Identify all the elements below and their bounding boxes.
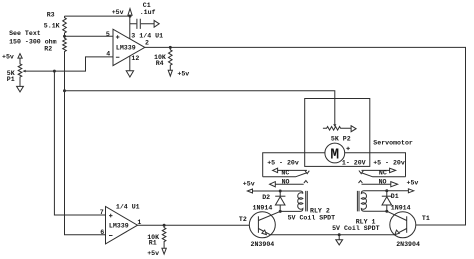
resistor R4 (154, 47, 172, 70)
svg-text:C1: C1 (143, 2, 151, 9)
svg-text:T1: T1 (422, 215, 430, 222)
svg-text:R3: R3 (47, 12, 55, 19)
svg-text:R1: R1 (149, 240, 157, 247)
wire U1a output (145, 47, 466, 225)
wire down to pin 7 (54, 71, 105, 215)
relay coil RLY2 (280, 191, 335, 222)
resistor R3 (44, 12, 67, 37)
wire pin3 vertical (129, 16, 131, 40)
svg-text:2N3904: 2N3904 (396, 241, 420, 248)
pivot mark RLY2 (305, 171, 309, 174)
NC contact RLY2 (273, 168, 307, 176)
svg-text:R2: R2 (44, 45, 52, 52)
potentiometer P1 (2, 54, 26, 87)
+5v arrow left contacts (247, 189, 252, 193)
op-amp U1a (113, 29, 145, 65)
node D1 top dot (385, 189, 388, 192)
svg-text:See Text: See Text (9, 30, 41, 37)
svg-text:+5v: +5v (177, 70, 189, 77)
diode D2 (253, 191, 286, 212)
svg-text:D2: D2 (262, 194, 270, 201)
svg-text:1/4 U1: 1/4 U1 (116, 204, 140, 211)
+5v arrow below R4 (168, 70, 172, 76)
node R1 junction dot (163, 224, 166, 227)
svg-text:+5v: +5v (243, 180, 255, 187)
svg-text:D1: D1 (391, 193, 399, 200)
svg-text:NO: NO (379, 178, 387, 185)
transistor T2 (239, 211, 280, 248)
svg-text:+5 - 20v: +5 - 20v (373, 160, 405, 167)
wire motor right to contact arm (345, 153, 406, 177)
NO contact RLY2 (270, 178, 308, 186)
svg-text:7: 7 (100, 209, 104, 216)
node D2 top dot (279, 190, 282, 193)
svg-text:2: 2 (145, 40, 149, 47)
svg-text:NO: NO (282, 178, 290, 185)
svg-text:5: 5 (106, 31, 110, 38)
contact arm RLY1 (362, 173, 406, 177)
+5v arrow below R1 (162, 248, 166, 254)
wire U1b output to T2 base (138, 224, 259, 226)
node +5v junction dot (129, 15, 132, 18)
resistor R1 (147, 225, 166, 248)
svg-text:Servomotor: Servomotor (373, 140, 413, 147)
svg-text:.1uf: .1uf (140, 9, 156, 16)
svg-text:+5v: +5v (112, 9, 124, 16)
resistor R2 (44, 36, 66, 91)
node R3/R2 junction dot (63, 35, 66, 38)
svg-text:1- 20V: 1- 20V (342, 160, 366, 167)
svg-text:+5 - 20v: +5 - 20v (267, 160, 299, 167)
svg-text:P1: P1 (7, 76, 15, 83)
wire +5v to relay coil RLY1 (387, 190, 409, 192)
wire pin 12 to ground (129, 56, 131, 71)
NO contact RLY1 (359, 178, 398, 186)
node ground dot (338, 233, 341, 236)
wire pin 4 to pot wiper (26, 57, 113, 71)
ground U1a (126, 71, 133, 77)
svg-text:2N3904: 2N3904 (251, 241, 275, 248)
transistor T1 (387, 211, 430, 248)
svg-text:6: 6 (100, 229, 104, 236)
op-amp U1b (106, 207, 138, 244)
wire long horizontal to servo pot (65, 91, 335, 125)
svg-text:3: 3 (131, 32, 135, 39)
node D2 bottom dot (279, 210, 282, 213)
svg-text:NC: NC (281, 170, 289, 177)
svg-text:NC: NC (379, 170, 387, 177)
svg-text:5V Coil SPDT: 5V Coil SPDT (332, 225, 380, 232)
svg-text:LM339: LM339 (116, 45, 136, 52)
svg-text:12: 12 (131, 55, 139, 62)
diode D1 (382, 191, 411, 212)
svg-text:LM339: LM339 (109, 223, 129, 230)
node R4 junction dot (169, 46, 172, 49)
node R2 long-wire junction dot (63, 89, 66, 92)
wire bottom emitters (270, 234, 394, 236)
wire to pin 5 (65, 35, 114, 37)
wire ground stem (338, 235, 340, 240)
svg-text:1/4 U1: 1/4 U1 (139, 32, 163, 39)
contact arm RLY2 (263, 173, 307, 177)
relay coil RLY1 (332, 191, 387, 232)
node D1 bottom dot (385, 210, 388, 213)
svg-text:5K P2: 5K P2 (331, 135, 351, 142)
wire R3 top to +5v node (65, 15, 131, 17)
wire R2 vertical down to pin 6 (65, 91, 106, 235)
svg-text:1N914: 1N914 (253, 205, 273, 212)
wire motor left to contact arm (263, 153, 325, 177)
capacitor C1 (130, 2, 159, 29)
ground P1 (17, 86, 24, 92)
potentiometer P2 (323, 124, 356, 142)
svg-text:5V Coil SPDT: 5V Coil SPDT (288, 214, 336, 221)
ground bottom (336, 240, 343, 245)
svg-text:+5v: +5v (147, 250, 159, 257)
NC contact RLY1 (362, 168, 396, 176)
svg-text:M: M (330, 147, 339, 163)
svg-text:+5v: +5v (407, 179, 419, 186)
+5v arrow right contacts (408, 189, 413, 193)
wire +5v to relay coil RLY2 (253, 191, 303, 194)
pivot mark RLY1 (359, 171, 363, 174)
svg-text:+5v: +5v (2, 54, 14, 61)
node wiper junction dot (53, 70, 56, 73)
svg-text:4: 4 (106, 51, 110, 58)
svg-text:5.1K: 5.1K (44, 22, 60, 29)
svg-text:T2: T2 (239, 216, 247, 223)
motor M1 (325, 143, 350, 163)
servo box (305, 99, 370, 167)
svg-text:R4: R4 (156, 60, 164, 67)
svg-text:1N914: 1N914 (391, 205, 411, 212)
+5v power arrow top (128, 9, 132, 16)
